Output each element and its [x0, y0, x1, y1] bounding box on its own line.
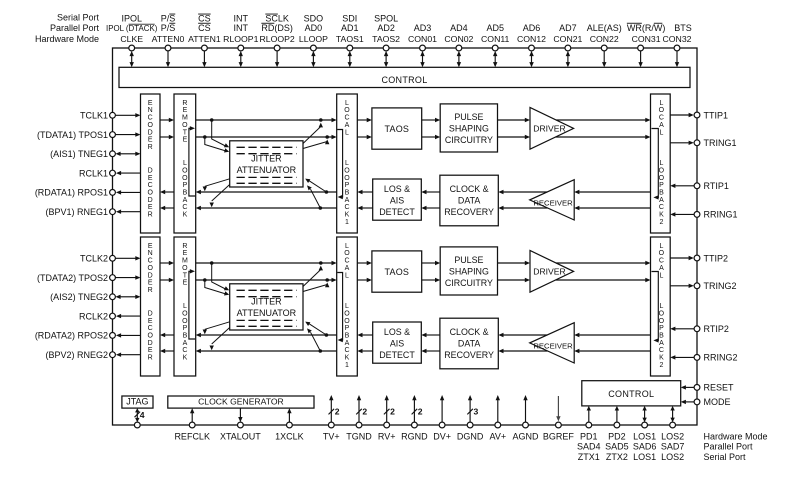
- svg-text:TGND: TGND: [346, 432, 372, 442]
- svg-text:O: O: [147, 265, 153, 272]
- svg-text:E: E: [148, 204, 153, 211]
- svg-text:ATTEN1: ATTEN1: [188, 34, 221, 44]
- svg-text:B: B: [183, 333, 188, 340]
- svg-text:L: L: [345, 100, 349, 107]
- svg-text:C: C: [659, 347, 664, 354]
- svg-text:AIS: AIS: [390, 338, 404, 348]
- svg-text:C: C: [148, 182, 153, 189]
- svg-text:P/S: P/S: [161, 23, 176, 33]
- svg-text:RV+: RV+: [378, 432, 396, 442]
- svg-text:AD4: AD4: [450, 23, 468, 33]
- svg-text:R: R: [182, 100, 187, 107]
- svg-text:P: P: [659, 325, 664, 332]
- svg-text:E: E: [148, 347, 153, 354]
- svg-text:RD(DS): RD(DS): [261, 23, 293, 33]
- svg-text:R: R: [148, 212, 153, 219]
- svg-text:(AIS2) TNEG2: (AIS2) TNEG2: [50, 292, 108, 302]
- svg-text:L: L: [183, 160, 187, 167]
- svg-text:PULSE: PULSE: [454, 255, 483, 265]
- svg-text:C: C: [148, 258, 153, 265]
- svg-text:AD7: AD7: [559, 23, 577, 33]
- svg-text:TAOS: TAOS: [384, 124, 409, 134]
- svg-text:LOS &: LOS &: [384, 184, 410, 194]
- svg-text:CON21: CON21: [553, 34, 582, 44]
- svg-text:P: P: [345, 325, 350, 332]
- svg-text:AGND: AGND: [512, 432, 539, 442]
- svg-text:A: A: [345, 197, 350, 204]
- svg-text:RCLK1: RCLK1: [79, 168, 108, 178]
- svg-text:E: E: [148, 280, 153, 287]
- svg-text:L: L: [345, 272, 349, 279]
- svg-text:DGND: DGND: [457, 432, 484, 442]
- svg-text:RESET: RESET: [704, 383, 735, 393]
- svg-text:O: O: [182, 167, 188, 174]
- svg-text:2: 2: [362, 407, 367, 417]
- svg-text:(TDATA2) TPOS2: (TDATA2) TPOS2: [37, 273, 108, 283]
- svg-text:A: A: [345, 265, 350, 272]
- svg-text:O: O: [344, 175, 350, 182]
- svg-text:O: O: [344, 167, 350, 174]
- svg-text:K: K: [345, 355, 350, 362]
- svg-text:RECEIVER: RECEIVER: [533, 342, 573, 351]
- svg-text:O: O: [344, 310, 350, 317]
- svg-text:C: C: [344, 347, 349, 354]
- svg-text:P: P: [345, 182, 350, 189]
- svg-text:JITTER: JITTER: [251, 154, 282, 164]
- svg-text:RTIP2: RTIP2: [704, 324, 729, 334]
- svg-text:CLKE: CLKE: [120, 34, 143, 44]
- svg-text:B: B: [183, 190, 188, 197]
- svg-text:D: D: [148, 129, 153, 136]
- svg-text:K: K: [183, 355, 188, 362]
- svg-text:L: L: [345, 129, 349, 136]
- svg-text:2: 2: [390, 407, 395, 417]
- svg-text:2: 2: [659, 219, 663, 226]
- svg-text:2: 2: [335, 407, 340, 417]
- svg-text:E: E: [148, 318, 153, 325]
- svg-text:O: O: [659, 175, 665, 182]
- svg-text:E: E: [148, 175, 153, 182]
- svg-text:(RDATA1) RPOS1: (RDATA1) RPOS1: [35, 188, 108, 198]
- svg-text:IPOL (DTACK): IPOL (DTACK): [106, 24, 158, 33]
- svg-text:AD3: AD3: [414, 23, 432, 33]
- svg-text:CIRCUITRY: CIRCUITRY: [445, 135, 493, 145]
- svg-text:CON32: CON32: [663, 34, 692, 44]
- svg-text:E: E: [148, 100, 153, 107]
- svg-text:DATA: DATA: [458, 195, 480, 205]
- svg-text:E: E: [148, 137, 153, 144]
- svg-text:Hardware Mode: Hardware Mode: [35, 34, 99, 44]
- svg-text:ZTX1: ZTX1: [578, 452, 600, 462]
- svg-text:P: P: [659, 182, 664, 189]
- svg-text:DRIVER: DRIVER: [533, 123, 565, 133]
- svg-text:L: L: [345, 160, 349, 167]
- svg-text:C: C: [659, 204, 664, 211]
- svg-text:E: E: [183, 137, 188, 144]
- svg-text:E: E: [183, 107, 188, 114]
- svg-text:C: C: [344, 204, 349, 211]
- svg-text:O: O: [182, 318, 188, 325]
- svg-text:RGND: RGND: [401, 432, 428, 442]
- svg-text:B: B: [659, 190, 664, 197]
- svg-text:M: M: [182, 258, 188, 265]
- svg-text:LOS1: LOS1: [633, 432, 656, 442]
- svg-text:O: O: [182, 310, 188, 317]
- svg-text:(TDATA1) TPOS1: (TDATA1) TPOS1: [37, 130, 108, 140]
- svg-text:R: R: [148, 355, 153, 362]
- svg-text:AIS: AIS: [390, 195, 404, 205]
- svg-text:LOS2: LOS2: [661, 432, 684, 442]
- svg-text:O: O: [344, 107, 350, 114]
- svg-text:ALE(AS): ALE(AS): [587, 23, 622, 33]
- svg-text:SAD6: SAD6: [633, 442, 657, 452]
- svg-text:DETECT: DETECT: [379, 350, 415, 360]
- svg-text:L: L: [659, 272, 663, 279]
- svg-text:C: C: [659, 115, 664, 122]
- svg-text:O: O: [659, 318, 665, 325]
- svg-text:DATA: DATA: [458, 338, 480, 348]
- svg-text:RECEIVER: RECEIVER: [533, 199, 573, 208]
- svg-text:1XCLK: 1XCLK: [275, 432, 304, 442]
- svg-text:AD0: AD0: [305, 23, 323, 33]
- svg-text:A: A: [659, 265, 664, 272]
- svg-text:C: C: [182, 204, 187, 211]
- svg-text:Parallel Port: Parallel Port: [704, 442, 754, 452]
- svg-text:RTIP1: RTIP1: [704, 181, 729, 191]
- svg-text:T: T: [183, 272, 188, 279]
- svg-text:O: O: [344, 318, 350, 325]
- svg-text:CONTROL: CONTROL: [381, 75, 427, 85]
- svg-text:B: B: [659, 333, 664, 340]
- svg-text:Hardware Mode: Hardware Mode: [704, 432, 768, 442]
- svg-text:K: K: [345, 212, 350, 219]
- svg-text:T: T: [183, 129, 188, 136]
- svg-text:ATTEN0: ATTEN0: [152, 34, 185, 44]
- svg-text:L: L: [659, 160, 663, 167]
- svg-text:Serial Port: Serial Port: [704, 452, 747, 462]
- svg-text:L: L: [659, 100, 663, 107]
- svg-text:BGREF: BGREF: [543, 432, 575, 442]
- svg-text:(BPV2) RNEG2: (BPV2) RNEG2: [45, 350, 108, 360]
- svg-text:A: A: [183, 340, 188, 347]
- svg-text:CIRCUITRY: CIRCUITRY: [445, 278, 493, 288]
- svg-text:P: P: [183, 325, 188, 332]
- svg-text:TRING2: TRING2: [704, 281, 737, 291]
- svg-text:TAOS: TAOS: [384, 267, 409, 277]
- svg-text:C: C: [148, 325, 153, 332]
- svg-text:JITTER: JITTER: [251, 297, 282, 307]
- svg-text:3: 3: [474, 407, 479, 417]
- svg-text:O: O: [659, 107, 665, 114]
- svg-text:O: O: [182, 175, 188, 182]
- svg-text:DRIVER: DRIVER: [533, 266, 565, 276]
- svg-text:LOS &: LOS &: [384, 327, 410, 337]
- svg-text:1: 1: [345, 362, 349, 369]
- svg-text:RECOVERY: RECOVERY: [444, 350, 494, 360]
- svg-text:SHAPING: SHAPING: [449, 124, 489, 134]
- svg-text:O: O: [344, 250, 350, 257]
- svg-text:L: L: [345, 303, 349, 310]
- svg-text:RECOVERY: RECOVERY: [444, 207, 494, 217]
- svg-text:SHAPING: SHAPING: [449, 267, 489, 277]
- svg-text:A: A: [345, 340, 350, 347]
- svg-text:C: C: [182, 347, 187, 354]
- svg-text:AD6: AD6: [523, 23, 541, 33]
- svg-text:A: A: [659, 122, 664, 129]
- svg-text:M: M: [182, 115, 188, 122]
- svg-text:L: L: [183, 303, 187, 310]
- svg-text:CLOCK &: CLOCK &: [450, 184, 489, 194]
- svg-text:D: D: [148, 340, 153, 347]
- svg-text:AD5: AD5: [486, 23, 504, 33]
- svg-text:CS: CS: [198, 23, 211, 33]
- svg-text:RLOOP1: RLOOP1: [223, 34, 258, 44]
- svg-text:RLOOP2: RLOOP2: [259, 34, 294, 44]
- svg-text:CLOCK GENERATOR: CLOCK GENERATOR: [198, 397, 284, 407]
- svg-text:JTAG: JTAG: [126, 397, 148, 407]
- svg-text:PD2: PD2: [608, 432, 626, 442]
- svg-text:O: O: [659, 310, 665, 317]
- svg-text:D: D: [148, 311, 153, 318]
- svg-text:(BPV1) RNEG1: (BPV1) RNEG1: [45, 207, 108, 217]
- svg-text:2: 2: [418, 407, 423, 417]
- svg-text:2: 2: [659, 362, 663, 369]
- svg-text:CONTROL: CONTROL: [608, 389, 654, 399]
- svg-text:AD2: AD2: [377, 23, 395, 33]
- svg-text:(RDATA2) RPOS2: (RDATA2) RPOS2: [35, 331, 108, 341]
- svg-text:TTIP2: TTIP2: [704, 253, 729, 263]
- svg-text:D: D: [148, 272, 153, 279]
- svg-text:L: L: [659, 303, 663, 310]
- svg-text:CON12: CON12: [517, 34, 546, 44]
- svg-text:WR(R/W): WR(R/W): [627, 23, 666, 33]
- svg-text:REFCLK: REFCLK: [174, 432, 210, 442]
- svg-text:B: B: [345, 190, 350, 197]
- svg-text:L: L: [345, 243, 349, 250]
- svg-text:DETECT: DETECT: [379, 207, 415, 217]
- svg-text:R: R: [148, 144, 153, 151]
- svg-text:O: O: [659, 167, 665, 174]
- svg-text:LOS2: LOS2: [661, 452, 684, 462]
- svg-text:R: R: [148, 287, 153, 294]
- svg-text:Serial Port: Serial Port: [57, 12, 100, 22]
- svg-text:L: L: [659, 243, 663, 250]
- svg-text:XTALOUT: XTALOUT: [220, 432, 261, 442]
- svg-text:E: E: [183, 250, 188, 257]
- svg-text:TRING1: TRING1: [704, 138, 737, 148]
- svg-text:O: O: [147, 122, 153, 129]
- svg-text:Parallel Port: Parallel Port: [50, 23, 100, 33]
- svg-text:B: B: [345, 333, 350, 340]
- svg-text:SAD5: SAD5: [605, 442, 629, 452]
- svg-text:TCLK2: TCLK2: [80, 254, 108, 264]
- svg-text:1: 1: [345, 219, 349, 226]
- svg-text:AV+: AV+: [490, 432, 507, 442]
- svg-text:CON22: CON22: [590, 34, 619, 44]
- svg-text:LOS1: LOS1: [633, 452, 656, 462]
- svg-text:CON31: CON31: [632, 34, 661, 44]
- svg-text:O: O: [182, 265, 188, 272]
- svg-text:ZTX2: ZTX2: [606, 452, 628, 462]
- svg-text:A: A: [345, 122, 350, 129]
- svg-text:TAOS1: TAOS1: [336, 34, 364, 44]
- svg-text:ATTENUATOR: ATTENUATOR: [237, 308, 297, 318]
- svg-text:D: D: [148, 197, 153, 204]
- svg-text:ATTENUATOR: ATTENUATOR: [237, 165, 297, 175]
- svg-text:TCLK1: TCLK1: [80, 111, 108, 121]
- svg-text:C: C: [344, 115, 349, 122]
- svg-text:RRING2: RRING2: [704, 353, 738, 363]
- svg-text:A: A: [659, 197, 664, 204]
- svg-text:(AIS1) TNEG1: (AIS1) TNEG1: [50, 149, 108, 159]
- svg-text:E: E: [183, 280, 188, 287]
- svg-text:INT: INT: [234, 23, 249, 33]
- svg-text:MODE: MODE: [704, 397, 731, 407]
- svg-text:A: A: [659, 340, 664, 347]
- svg-text:C: C: [344, 258, 349, 265]
- svg-text:C: C: [148, 115, 153, 122]
- svg-text:K: K: [183, 212, 188, 219]
- svg-text:TAOS2: TAOS2: [372, 34, 400, 44]
- svg-text:K: K: [659, 212, 664, 219]
- svg-text:CON11: CON11: [481, 34, 509, 44]
- svg-text:4: 4: [140, 410, 145, 420]
- svg-text:D: D: [148, 168, 153, 175]
- svg-text:O: O: [182, 122, 188, 129]
- svg-text:CON01: CON01: [408, 34, 437, 44]
- svg-text:BTS: BTS: [674, 23, 692, 33]
- svg-text:RRING1: RRING1: [704, 210, 738, 220]
- svg-text:LLOOP: LLOOP: [299, 34, 328, 44]
- svg-text:O: O: [147, 190, 153, 197]
- svg-text:L: L: [659, 129, 663, 136]
- svg-text:A: A: [183, 197, 188, 204]
- svg-text:TV+: TV+: [323, 432, 340, 442]
- svg-text:CLOCK &: CLOCK &: [450, 327, 489, 337]
- svg-text:SAD4: SAD4: [577, 442, 601, 452]
- svg-text:CON02: CON02: [444, 34, 473, 44]
- svg-text:O: O: [147, 333, 153, 340]
- svg-text:N: N: [148, 107, 153, 114]
- svg-text:P: P: [183, 182, 188, 189]
- svg-text:AD1: AD1: [341, 23, 359, 33]
- svg-text:IPOL: IPOL: [121, 14, 142, 24]
- svg-text:TTIP1: TTIP1: [704, 110, 729, 120]
- svg-text:RCLK2: RCLK2: [79, 311, 108, 321]
- svg-text:R: R: [182, 243, 187, 250]
- svg-text:N: N: [148, 250, 153, 257]
- svg-text:SAD7: SAD7: [661, 442, 685, 452]
- svg-text:PD1: PD1: [580, 432, 598, 442]
- svg-text:E: E: [148, 243, 153, 250]
- svg-text:K: K: [659, 355, 664, 362]
- svg-text:C: C: [659, 258, 664, 265]
- svg-text:O: O: [659, 250, 665, 257]
- svg-text:DV+: DV+: [433, 432, 451, 442]
- svg-text:PULSE: PULSE: [454, 112, 483, 122]
